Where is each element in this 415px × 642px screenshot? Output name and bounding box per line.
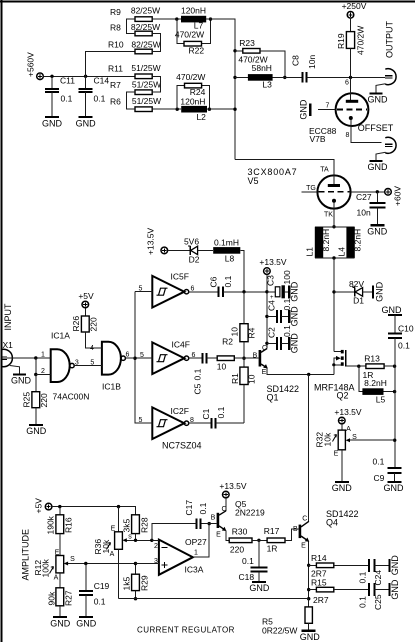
wire V5 grid to +60V: [351, 191, 385, 193]
resistor R17 1R: [264, 526, 285, 554]
wire V5 grid stub: [302, 191, 318, 193]
svg-text:10n: 10n: [357, 208, 371, 218]
node R15: [307, 588, 310, 591]
svg-text:C9: C9: [374, 473, 385, 483]
svg-text:0.1: 0.1: [193, 368, 203, 380]
svg-text:+13.5V: +13.5V: [146, 227, 156, 255]
wire L2 to bus: [207, 108, 235, 110]
tube V5 3CX800A7: [248, 160, 351, 219]
svg-text:TG: TG: [306, 185, 316, 192]
wire R2 to base node: [234, 357, 258, 359]
wire R6 output to L2: [152, 108, 181, 110]
svg-text:AMPLITUDE: AMPLITUDE: [21, 529, 31, 581]
node R14: [307, 564, 310, 567]
wire L1/L4 top bar: [315, 226, 355, 228]
resistor R26: [71, 308, 102, 348]
svg-text:6: 6: [126, 352, 130, 359]
svg-text:CURRENT REGULATOR: CURRENT REGULATOR: [137, 626, 235, 635]
svg-text:GND: GND: [290, 333, 300, 354]
capacitor C10 0.1: [388, 315, 414, 351]
svg-text:0R22/5W: 0R22/5W: [262, 626, 297, 636]
zener D1 82V: [334, 279, 373, 306]
svg-text:4: 4: [90, 345, 94, 352]
wire C10/R13/L5/wiper vertical: [394, 338, 396, 468]
node bus L3: [233, 76, 236, 79]
resistor R30 220: [229, 527, 252, 555]
svg-text:R7: R7: [110, 80, 121, 90]
svg-text:R9: R9: [110, 7, 121, 17]
svg-text:E: E: [216, 532, 221, 539]
svg-text:190k: 190k: [46, 515, 56, 534]
svg-text:0.1: 0.1: [398, 341, 410, 351]
svg-text:GND: GND: [50, 618, 71, 628]
svg-text:120nH: 120nH: [180, 96, 205, 106]
svg-text:E: E: [111, 526, 116, 533]
svg-text:IC1A: IC1A: [51, 331, 70, 341]
svg-text:+13.5V: +13.5V: [219, 481, 247, 491]
node gate supply left: [242, 290, 245, 293]
resistor R27 90k: [47, 588, 74, 617]
resistor R29 1k5: [122, 564, 150, 599]
node L7 left: [175, 17, 178, 20]
svg-text:GND: GND: [11, 376, 32, 386]
capacitor C4 0.1: [267, 298, 293, 322]
svg-text:Q2: Q2: [337, 391, 349, 401]
ground for C25 (rotated): [389, 579, 400, 600]
svg-text:GND: GND: [382, 305, 403, 315]
ground for C4 (rotated): [289, 306, 299, 327]
svg-text:R28: R28: [140, 517, 150, 533]
inductor L2 120nH: [180, 96, 207, 122]
svg-text:R26: R26: [71, 316, 81, 332]
svg-text:C17: C17: [184, 500, 194, 516]
svg-text:+13.5V: +13.5V: [259, 257, 287, 267]
svg-text:GND: GND: [76, 618, 97, 628]
supply +60V: [385, 186, 403, 206]
svg-text:10k: 10k: [323, 432, 333, 446]
svg-text:0.1: 0.1: [223, 275, 233, 287]
svg-text:10: 10: [217, 362, 227, 372]
ground for C2 (rotated): [289, 333, 299, 354]
capacitor C9 0.1: [373, 457, 402, 484]
svg-text:E: E: [301, 543, 306, 550]
wire C1 to R1 bottom: [216, 422, 244, 424]
wire D2 to L8: [198, 249, 214, 251]
resistor R25: [22, 375, 50, 425]
ground above C10: [382, 305, 403, 315]
wire R13 right: [384, 365, 395, 367]
connector X1: [1, 340, 14, 367]
resistor R9: [110, 6, 160, 22]
svg-text:R14: R14: [311, 553, 327, 563]
svg-text:OFFSET: OFFSET: [358, 123, 394, 133]
svg-text:0.1: 0.1: [358, 596, 368, 608]
wire Q1 emitter to Q2 source: [267, 368, 334, 374]
resistor R11: [108, 63, 161, 79]
input bus vertical: [134, 292, 136, 407]
svg-text:8.2nH: 8.2nH: [364, 378, 387, 388]
resistor R10: [108, 40, 161, 54]
svg-text:OUTPUT: OUTPUT: [385, 21, 395, 59]
svg-text:470/2W: 470/2W: [176, 72, 205, 82]
svg-text:82/25W: 82/25W: [131, 6, 160, 16]
svg-text:R17: R17: [264, 526, 280, 536]
svg-text:10: 10: [230, 327, 240, 337]
capacitor C17 0.1 feedback: [152, 500, 209, 541]
ground for X1: [10, 366, 32, 386]
wire +5V rail: [52, 507, 136, 515]
wire V7B cathode to OFFSET: [351, 120, 382, 143]
resistor R16 190k: [46, 507, 74, 556]
svg-text:GND: GND: [26, 426, 47, 436]
wire cathode line down to Q2: [333, 258, 335, 352]
ground for C11: [42, 117, 63, 129]
svg-text:GND: GND: [368, 162, 389, 172]
supply +560V: [26, 52, 44, 80]
svg-text:C5: C5: [193, 383, 203, 394]
wire R15 to C25: [334, 589, 369, 591]
node C2 tap: [265, 342, 268, 345]
wire X1 to IC1A pin1: [7, 357, 51, 359]
wire C5 to R2: [207, 357, 218, 359]
inverter IC4F: [140, 340, 196, 375]
ground for D1 (rotated): [373, 281, 385, 302]
capacitor C25 0.1: [358, 583, 390, 610]
svg-text:C1: C1: [201, 408, 211, 419]
svg-text:GND: GND: [390, 579, 400, 600]
ground for C19: [76, 617, 97, 628]
svg-text:470/2W: 470/2W: [175, 29, 204, 39]
wire IC2F output to C1: [189, 422, 211, 424]
svg-text:A: A: [346, 426, 351, 433]
resistor R23: [235, 38, 285, 77]
svg-text:NC7SZ04: NC7SZ04: [162, 441, 202, 451]
inductor L4 8.2nH: [337, 227, 363, 258]
ground for OUTPUT jack: [368, 84, 389, 105]
connector OUTPUT jack: [385, 69, 396, 85]
capacitor C3 100 electrolytic: [266, 270, 293, 301]
svg-text:+250V: +250V: [342, 1, 367, 11]
wire V7B grid to GND: [318, 109, 336, 111]
svg-text:C25: C25: [373, 594, 383, 610]
svg-text:GND: GND: [390, 555, 400, 576]
svg-text:IC1B: IC1B: [102, 382, 121, 392]
wire R8-R10 right link: [152, 34, 160, 52]
svg-text:R8: R8: [110, 23, 121, 33]
svg-text:C19: C19: [94, 581, 110, 591]
svg-text:5V6: 5V6: [184, 237, 199, 247]
svg-text:R11: R11: [108, 64, 123, 74]
svg-text:R29: R29: [140, 575, 150, 591]
ground for C9: [384, 482, 405, 493]
potentiometer R12 100k: [33, 550, 136, 588]
node Q1 base: [242, 357, 245, 360]
svg-text:L4: L4: [337, 247, 347, 257]
node C11 tap: [50, 75, 53, 78]
svg-text:L2: L2: [196, 112, 206, 122]
wire C6 to gate node: [223, 291, 267, 293]
svg-text:R25: R25: [22, 392, 32, 408]
wire V5 cathode down: [333, 203, 335, 227]
node Q4 branch: [307, 373, 310, 376]
svg-text:R27: R27: [64, 590, 74, 606]
svg-text:8.2nH: 8.2nH: [321, 229, 331, 252]
node C18 tap: [257, 539, 260, 542]
supply +13.5V (R32): [334, 407, 362, 424]
svg-text:R15: R15: [311, 577, 327, 587]
svg-text:C2: C2: [267, 327, 277, 338]
svg-text:R22: R22: [189, 46, 205, 56]
svg-text:1: 1: [41, 352, 45, 359]
svg-text:R1: R1: [230, 373, 240, 384]
svg-text:GND: GND: [76, 119, 97, 129]
svg-text:R4: R4: [247, 327, 257, 338]
svg-text:C10: C10: [398, 324, 414, 334]
svg-text:R24: R24: [190, 87, 206, 97]
svg-text:GND: GND: [300, 632, 321, 642]
wire Q4 emitter down: [308, 541, 310, 598]
ground for C27: [367, 225, 388, 236]
svg-text:+60V: +60V: [393, 186, 403, 206]
svg-text:C: C: [302, 516, 307, 523]
resistor R24: [176, 72, 209, 109]
node C3 tap: [265, 290, 268, 293]
node C27 tap: [376, 190, 379, 193]
resistor R22: [175, 19, 211, 56]
svg-text:V5: V5: [248, 176, 259, 186]
nand IC1A 74AC00N: [41, 331, 89, 402]
node R13 right: [393, 365, 396, 368]
svg-text:470/2W: 470/2W: [356, 26, 366, 55]
capacitor C19 0.1: [79, 564, 110, 617]
svg-text:C: C: [221, 506, 226, 513]
wire bus to IC5F input: [135, 291, 152, 293]
wire +13.5V to D2: [168, 249, 190, 251]
zener D2 5V6: [184, 237, 200, 265]
svg-text:51/25W: 51/25W: [132, 80, 161, 90]
svg-text:10k: 10k: [101, 539, 111, 553]
svg-text:C4: C4: [267, 300, 277, 311]
svg-text:D1: D1: [353, 296, 364, 306]
ground for R32: [332, 482, 353, 493]
svg-text:+13.5V: +13.5V: [334, 407, 362, 417]
wire C8 to output node: [307, 76, 386, 78]
node wiper join: [393, 439, 396, 442]
svg-text:7: 7: [326, 103, 330, 110]
potentiometer R32 10k: [315, 424, 395, 481]
node L7 right: [209, 17, 212, 20]
svg-text:C18: C18: [239, 572, 255, 582]
resistor R14: [309, 553, 334, 579]
svg-text:220: 220: [39, 393, 49, 407]
inverter IC5F: [139, 272, 195, 308]
wire sense line: [119, 598, 309, 600]
supply +5V (R26): [78, 291, 94, 308]
node L5 right: [393, 390, 396, 393]
svg-text:+560V: +560V: [26, 52, 36, 77]
wire pin2 input: [152, 539, 159, 541]
node L3 right / R23 join: [283, 76, 286, 79]
ground for R25: [26, 425, 47, 436]
wire R17 to Q4 base: [285, 529, 299, 540]
transistor Q4 SD1422: [293, 509, 359, 550]
svg-text:R13: R13: [364, 354, 380, 364]
svg-text:+: +: [270, 295, 274, 301]
wire IC4F output to C5: [189, 357, 202, 359]
resistor R4: [230, 292, 257, 358]
supply +13.5V (Q1 rail): [259, 257, 287, 274]
svg-text:IC5F: IC5F: [171, 272, 189, 282]
inductor L8 0.1mH: [213, 237, 240, 263]
svg-text:51/25W: 51/25W: [131, 63, 160, 73]
svg-text:C27: C27: [356, 192, 372, 202]
ground for C14: [76, 117, 97, 129]
svg-text:220: 220: [89, 317, 99, 331]
node L1/L4 bottom: [332, 256, 335, 259]
svg-text:S: S: [352, 434, 357, 441]
wire Q4 branch down: [308, 374, 310, 521]
wire IC1B out to bus: [125, 357, 135, 359]
supply +250V: [342, 1, 367, 18]
svg-text:R16: R16: [64, 517, 74, 533]
supply +13.5V (Q5): [219, 481, 247, 498]
svg-text:A: A: [54, 575, 59, 582]
wire Q2 gate to R13: [346, 365, 366, 367]
op-amp IC3A OP27: [154, 537, 207, 575]
node bus R23: [233, 49, 236, 52]
wire R9-R8 left link: [126, 19, 135, 33]
node pin2: [34, 373, 37, 376]
svg-text:R6: R6: [110, 97, 121, 107]
resistor R7: [110, 80, 161, 95]
svg-text:E: E: [262, 369, 267, 376]
svg-text:C: C: [262, 345, 267, 352]
capacitor C6 0.1: [209, 275, 234, 297]
svg-text:GND: GND: [290, 306, 300, 327]
svg-text:L1: L1: [305, 247, 315, 257]
capacitor C14: [79, 76, 110, 117]
wire pin2 into IC1A: [36, 374, 51, 376]
svg-text:8.2nH: 8.2nH: [353, 229, 363, 252]
ground for C18: [249, 582, 270, 593]
svg-text:OP27: OP27: [185, 537, 207, 547]
resistor R13: [363, 354, 385, 381]
capacitor C11: [45, 76, 75, 117]
inductor L1 8.2nH: [305, 227, 332, 258]
svg-text:0.1: 0.1: [94, 94, 106, 104]
capacitor C8 10n: [291, 55, 318, 83]
svg-text:0.1: 0.1: [216, 406, 226, 418]
ground for OFFSET jack: [368, 152, 389, 172]
svg-text:R23: R23: [239, 38, 255, 48]
node L1/L4 top: [332, 225, 335, 228]
wire R7-R6 left link: [126, 92, 135, 109]
supply +5V (amplitude): [34, 498, 52, 514]
svg-text:220: 220: [230, 545, 244, 555]
wire L3 to C8: [273, 76, 302, 78]
svg-text:2N2219: 2N2219: [235, 508, 265, 518]
svg-text:B: B: [211, 515, 216, 522]
svg-text:1R: 1R: [267, 544, 278, 554]
resistor R5 0R22/5W: [262, 599, 312, 636]
svg-text:R2: R2: [222, 337, 233, 347]
wire bus to V5 anode: [235, 160, 334, 177]
svg-text:S: S: [70, 556, 75, 563]
svg-text:2: 2: [41, 368, 45, 375]
wire R14 to C24: [334, 564, 369, 566]
svg-text:C8: C8: [291, 55, 301, 66]
inductor L3 58nH: [235, 63, 273, 90]
svg-text:2R7: 2R7: [313, 595, 329, 605]
svg-text:L8: L8: [225, 254, 235, 264]
resistor R2: [217, 337, 235, 372]
svg-text:TK: TK: [324, 212, 333, 219]
svg-text:100k: 100k: [41, 558, 51, 577]
svg-text:0.1: 0.1: [61, 94, 73, 104]
wire L7 to bus: [206, 19, 235, 159]
node pin1: [34, 356, 37, 359]
wire +560V rail: [43, 75, 135, 77]
svg-text:82/25W: 82/25W: [131, 22, 160, 32]
svg-text:74AC00N: 74AC00N: [53, 392, 90, 402]
ground for C3 (rotated): [289, 281, 299, 302]
svg-text:C6: C6: [209, 276, 219, 287]
svg-text:3k5: 3k5: [122, 519, 132, 533]
wire riser to R10 feed: [86, 52, 135, 77]
resistor R8: [110, 22, 160, 36]
svg-text:GND: GND: [367, 227, 388, 237]
svg-text:GND: GND: [384, 483, 405, 493]
svg-text:GND: GND: [249, 583, 270, 593]
transistor Q5 2N2219: [209, 498, 265, 540]
wire output up to base node: [193, 524, 209, 558]
border frame top: [0, 0, 415, 2]
transistor Q1 SD1422: [253, 345, 299, 403]
wire IC5F output to C6: [189, 291, 219, 293]
svg-text:R10: R10: [108, 40, 124, 50]
svg-text:82/25W: 82/25W: [131, 40, 160, 50]
ground for V7B grid (rotated): [299, 99, 311, 120]
svg-text:1: 1: [194, 550, 198, 557]
capacitor C5 0.1: [193, 353, 207, 395]
wire L8 to gate node: [240, 250, 244, 291]
svg-text:0.1: 0.1: [94, 597, 106, 607]
node sense line join: [307, 597, 310, 600]
node C19 tap: [84, 562, 87, 565]
svg-text:120nH: 120nH: [181, 6, 206, 16]
node R29 bottom: [134, 597, 137, 600]
svg-text:90k: 90k: [47, 591, 57, 605]
node R29 top: [134, 562, 137, 565]
node gate/R13: [357, 365, 360, 368]
svg-text:GND: GND: [42, 119, 63, 129]
svg-text:L5: L5: [376, 395, 386, 405]
svg-text:E: E: [334, 451, 339, 458]
svg-text:0.1: 0.1: [242, 556, 254, 566]
wire bus to IC2F input: [135, 407, 152, 423]
mosfet Q2 MRF148A: [314, 350, 355, 401]
node D1 tap: [332, 290, 335, 293]
ground for R5: [300, 631, 321, 642]
inductor L5 8.2nH: [359, 366, 395, 404]
svg-text:10: 10: [247, 374, 257, 384]
nand IC1B: [90, 342, 130, 392]
svg-text:INPUT: INPUT: [3, 303, 13, 331]
resistor R1: [230, 358, 257, 423]
svg-text:C14: C14: [94, 76, 110, 86]
capacitor C27 10n: [356, 192, 385, 225]
svg-text:IC2F: IC2F: [171, 406, 189, 416]
